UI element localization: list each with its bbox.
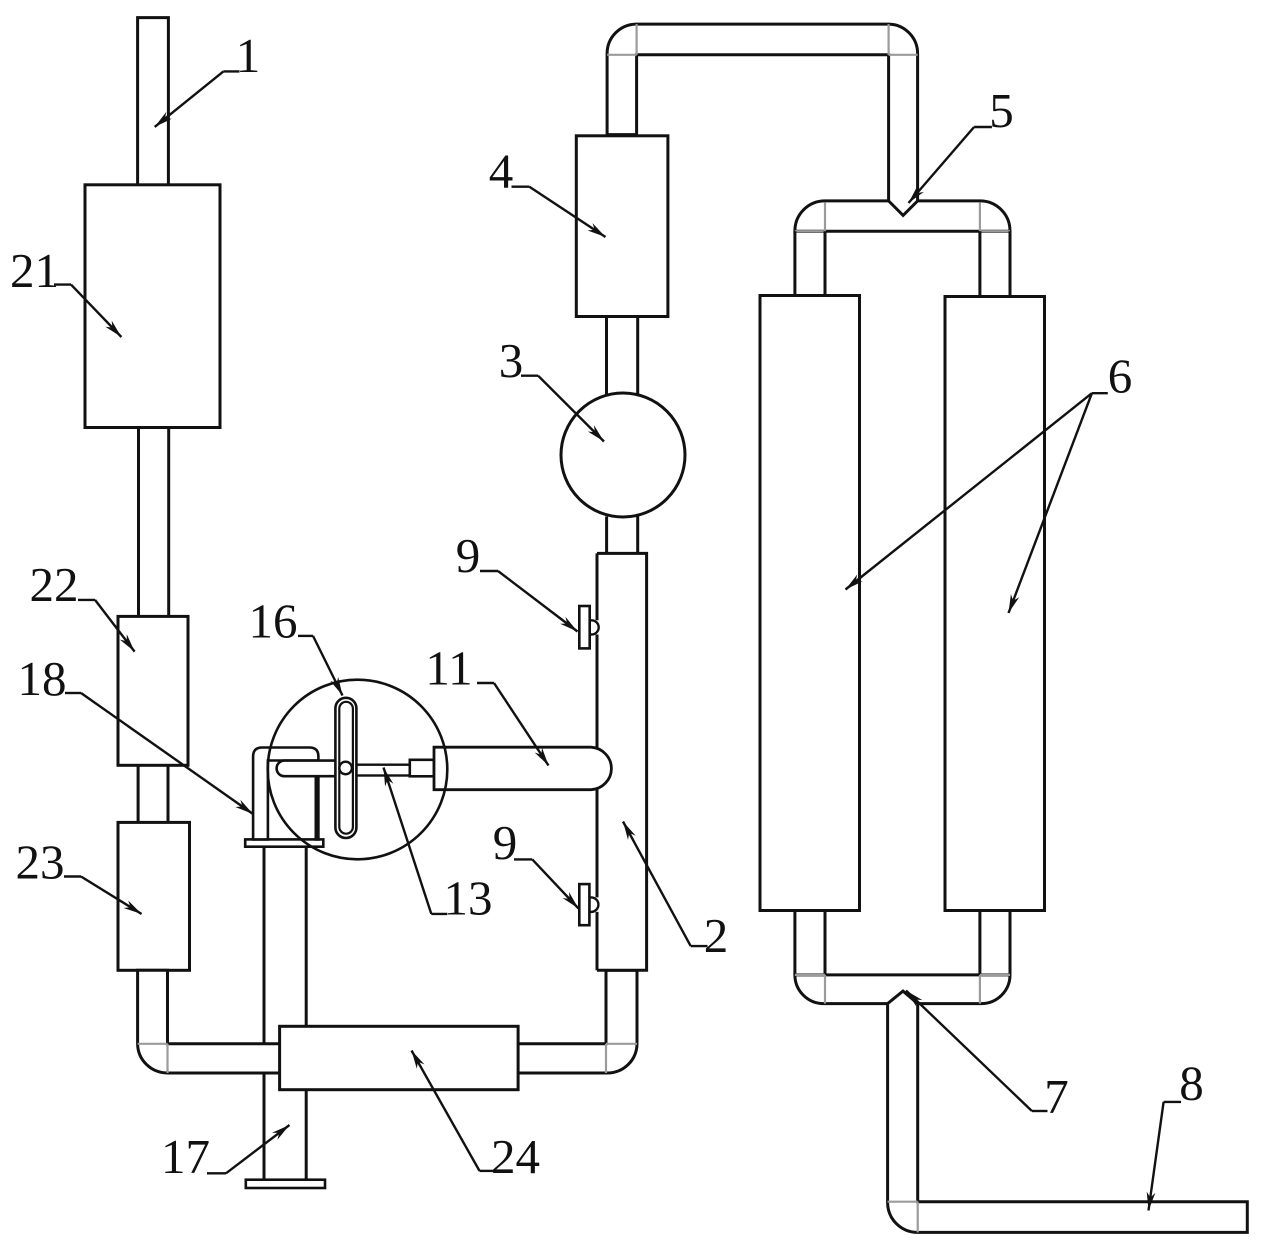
top stub right <box>980 231 1010 296</box>
bottom stub right <box>980 911 1010 975</box>
pipe 21-22 <box>139 428 169 617</box>
leader 7 <box>1032 1110 1048 1112</box>
top stub left <box>795 231 825 295</box>
bottom header pipe <box>795 975 1010 1004</box>
valve slot 16 outer <box>335 698 356 838</box>
svg-text:13: 13 <box>444 871 493 926</box>
inlet pipe 1 <box>138 18 169 185</box>
bracket 18 <box>253 748 318 840</box>
reactor column 2 <box>597 553 647 970</box>
leader 18 <box>65 692 81 694</box>
pipe 4-3 <box>607 317 638 395</box>
handle rod 13 <box>348 765 410 776</box>
pipe 3-2 <box>607 517 638 554</box>
bottom stub left <box>795 911 825 975</box>
svg-text:7: 7 <box>1044 1069 1069 1124</box>
svg-text:21: 21 <box>10 243 59 298</box>
leader 24 <box>480 1170 495 1172</box>
svg-text:18: 18 <box>18 651 67 706</box>
valve 9 top <box>579 606 589 648</box>
leader 16 <box>298 635 313 637</box>
leader 1 <box>223 70 239 72</box>
leader 4 <box>512 185 530 187</box>
column 6 right <box>945 297 1045 911</box>
outlet pipe with V joint 7 <box>888 991 1248 1232</box>
svg-text:11: 11 <box>425 641 472 696</box>
bracket base plate <box>245 839 323 846</box>
leader 23 <box>64 875 81 877</box>
elbow seam right-bottom <box>606 1043 637 1045</box>
bottom header seams <box>824 975 826 1004</box>
elbow pipe 24 to column 2 <box>500 970 637 1073</box>
svg-text:23: 23 <box>16 835 65 890</box>
support pipe 17 right line <box>305 847 308 1180</box>
support flange 17 <box>246 1180 325 1188</box>
pump ball 3 <box>561 393 685 517</box>
tank 23 <box>118 822 190 970</box>
valve 9 top bump <box>590 620 599 634</box>
tank 22 <box>118 616 188 765</box>
leader 6 to left column <box>1092 392 1108 394</box>
svg-text:16: 16 <box>249 594 298 649</box>
svg-text:5: 5 <box>989 83 1014 138</box>
svg-text:22: 22 <box>30 557 79 612</box>
heater box 24 <box>280 1026 518 1089</box>
valve housing circle 16 <box>268 680 448 860</box>
svg-text:3: 3 <box>499 333 524 388</box>
elbow pipe 23 to 24 <box>138 970 305 1073</box>
svg-text:24: 24 <box>491 1129 540 1184</box>
leader 13 <box>431 913 447 915</box>
column 6 left <box>760 296 860 911</box>
leader 5 <box>974 126 992 128</box>
feed pipe 11 <box>434 747 611 790</box>
leader 9 bottom <box>514 858 532 860</box>
svg-text:8: 8 <box>1179 1056 1204 1111</box>
elbow seam left-bottom <box>138 1043 168 1045</box>
svg-text:6: 6 <box>1108 349 1133 404</box>
overhead pipe with V joint 5 <box>607 24 918 215</box>
pivot <box>339 762 352 775</box>
leader 6 to right column <box>1009 393 1092 613</box>
leader 11 <box>477 682 494 684</box>
svg-text:1: 1 <box>236 28 261 83</box>
svg-text:4: 4 <box>489 144 514 199</box>
outlet pipe seams <box>888 1201 918 1203</box>
leader 9 top <box>480 570 498 572</box>
leader 3 <box>521 375 538 377</box>
leader 2 <box>691 945 708 947</box>
valve slot 16 inner <box>339 702 353 834</box>
tank 21 <box>85 185 220 428</box>
support pipe 17 left line <box>263 847 266 1180</box>
svg-text:9: 9 <box>493 815 518 870</box>
leader 17 <box>207 1172 226 1174</box>
handle connector <box>410 760 434 777</box>
leader 22 <box>78 599 95 601</box>
top header pipe <box>795 201 1010 231</box>
valve 9 bottom <box>579 884 589 925</box>
leader 21 <box>54 283 71 285</box>
svg-text:9: 9 <box>456 528 481 583</box>
pipe 22-23 <box>138 765 168 822</box>
condenser box 4 <box>576 136 668 317</box>
leader 8 <box>1164 1101 1181 1103</box>
handle grip <box>277 761 352 777</box>
svg-text:17: 17 <box>161 1129 210 1184</box>
overhead pipe seams <box>607 54 637 56</box>
valve 9 bottom bump <box>589 897 598 912</box>
top header seams <box>824 202 826 231</box>
svg-text:2: 2 <box>704 908 729 963</box>
